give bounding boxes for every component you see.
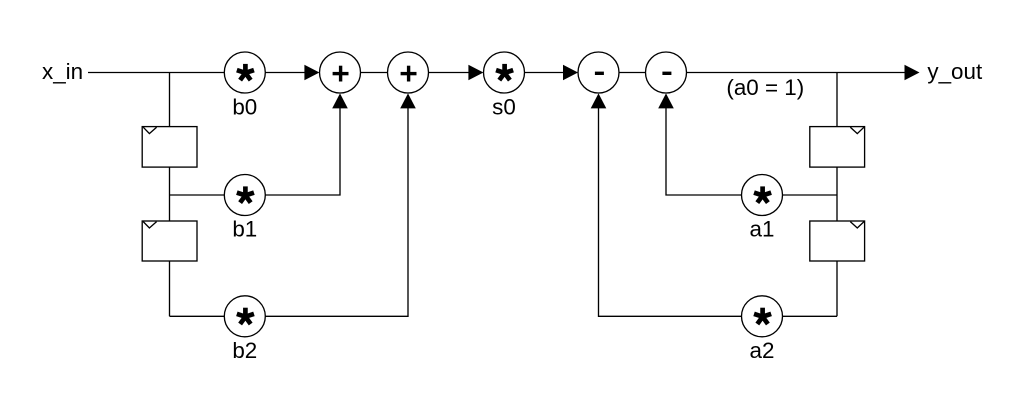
notch delay right 1 xyxy=(850,127,864,133)
wire x_in to b0 xyxy=(88,72,224,74)
svg-text:b1: b1 xyxy=(232,217,257,242)
multiplier s0 circle xyxy=(484,52,525,93)
subtractor 2 circle xyxy=(646,52,687,93)
delay block left 1 xyxy=(142,127,197,168)
wire b2 tap xyxy=(170,315,225,317)
arrowhead into y_out xyxy=(905,65,920,81)
subtractor 1 circle xyxy=(578,52,619,93)
asterisk glyph a1 xyxy=(754,186,771,202)
arrowhead into adder1 xyxy=(304,65,319,81)
arrowhead into sub1 xyxy=(563,65,578,81)
multiplier b0 circle xyxy=(224,52,265,93)
asterisk glyph b0 xyxy=(237,64,254,80)
wire right branch vertical x=837 xyxy=(836,73,838,317)
arrowhead up into adder2 xyxy=(400,93,416,108)
asterisk glyph b2 xyxy=(237,308,254,324)
wire adder2 to s0 xyxy=(429,72,471,74)
svg-text:b2: b2 xyxy=(232,338,257,363)
minus glyph sub1 xyxy=(595,72,604,75)
svg-text:y_out: y_out xyxy=(927,59,983,84)
arrowhead up into sub2 xyxy=(658,93,674,108)
wire b1 to adder1 up xyxy=(265,95,340,195)
adder 2 circle xyxy=(388,52,429,93)
svg-text:x_in: x_in xyxy=(42,59,83,84)
wire b0 to adder1 xyxy=(265,72,306,74)
delay block right 2 xyxy=(810,221,865,261)
wire a2 to sub1 up xyxy=(599,95,742,316)
wire b2 to adder2 up xyxy=(265,95,408,316)
wire left branch vertical x=169.5 xyxy=(169,73,171,317)
svg-text:a1: a1 xyxy=(750,217,775,242)
delay block right 1 xyxy=(810,127,865,168)
delay block left 2 xyxy=(142,221,197,261)
notch delay right 2 xyxy=(850,222,864,228)
svg-text:(a0 = 1): (a0 = 1) xyxy=(726,75,804,100)
plus glyph adder1 xyxy=(333,66,349,82)
wire a1 tap xyxy=(783,194,838,196)
wire b1 tap xyxy=(170,194,225,196)
svg-text:a2: a2 xyxy=(750,338,775,363)
wire sub2 to y_out xyxy=(687,72,907,74)
wire sub1 to sub2 xyxy=(619,72,646,74)
notch delay left 1 xyxy=(143,127,156,133)
minus glyph sub2 xyxy=(662,72,671,75)
svg-text:b0: b0 xyxy=(232,94,257,119)
asterisk glyph b1 xyxy=(237,186,254,202)
adder 1 circle xyxy=(320,52,361,93)
asterisk glyph s0 xyxy=(496,64,513,80)
multiplier b2 circle xyxy=(224,296,265,337)
multiplier a2 circle xyxy=(742,296,783,337)
wire adder1 to adder2 xyxy=(361,72,388,74)
plus glyph adder2 xyxy=(401,66,417,82)
multiplier a1 circle xyxy=(742,175,783,216)
notch delay left 2 xyxy=(143,222,156,228)
asterisk glyph a2 xyxy=(754,308,771,324)
multiplier b1 circle xyxy=(224,175,265,216)
wire s0 to sub1 xyxy=(525,72,566,74)
wire a1 to sub2 up xyxy=(666,95,742,195)
wire a2 tap xyxy=(783,315,838,317)
arrowhead up into sub1 xyxy=(591,93,607,108)
svg-text:s0: s0 xyxy=(492,94,516,119)
arrowhead into s0 xyxy=(468,65,483,81)
arrowhead up into adder1 xyxy=(332,93,348,108)
